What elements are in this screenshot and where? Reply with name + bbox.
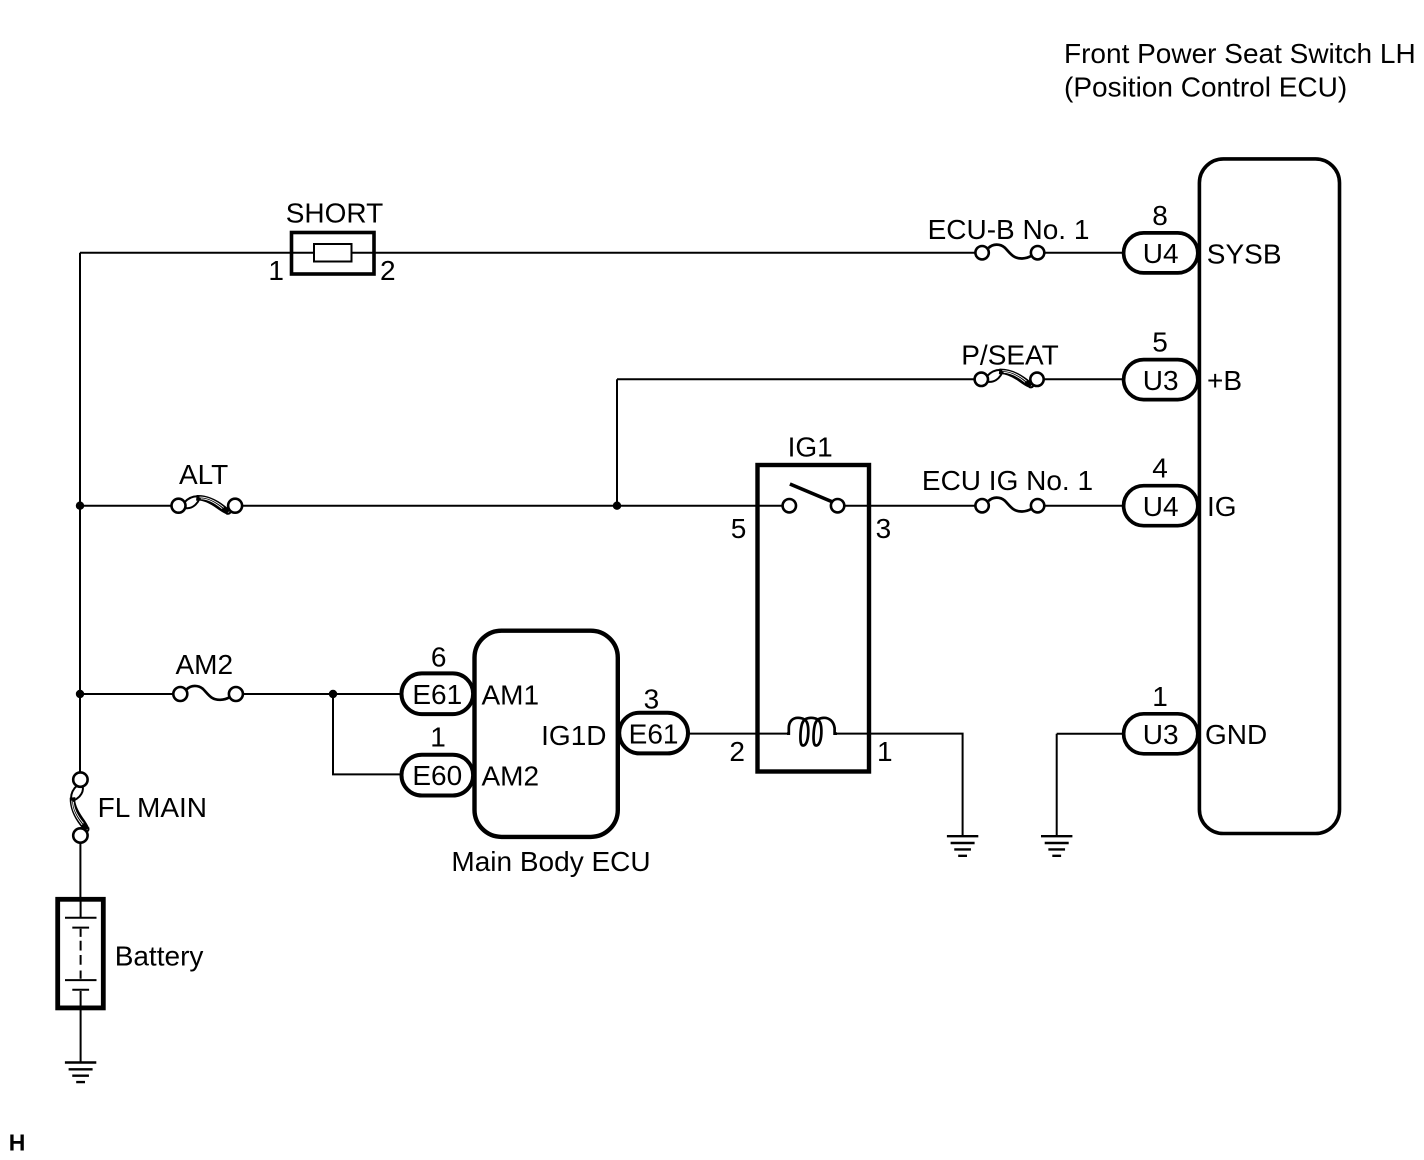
junction dot: left bus at AM2 row	[76, 690, 84, 698]
svg-text:IG: IG	[1207, 491, 1237, 522]
relay IG1 box	[758, 465, 870, 772]
svg-text:3: 3	[876, 513, 892, 544]
svg-text:5: 5	[1152, 327, 1168, 358]
svg-text:4: 4	[1152, 453, 1168, 484]
wire: GND row from ground stem corner to terminal U3	[1057, 734, 1124, 836]
svg-text:U3: U3	[1143, 719, 1179, 750]
relay IG1 switch blade	[790, 484, 832, 502]
terminal U3 (GND) oval	[1124, 714, 1198, 754]
terminal U4 (SYSB) oval	[1124, 233, 1198, 273]
connector E61 (IG1D) oval	[619, 713, 688, 754]
fusible link ALT terminals	[172, 499, 186, 513]
svg-text:(Position Control ECU): (Position Control ECU)	[1064, 72, 1347, 103]
svg-text:IG1: IG1	[788, 432, 833, 463]
battery plate short top	[72, 927, 89, 929]
fusible link ALT element	[184, 495, 230, 513]
svg-text:1: 1	[1152, 681, 1168, 712]
svg-text:2: 2	[729, 736, 745, 767]
fusible link FL MAIN element (vertical)	[70, 785, 88, 831]
wire: IG/ALT row from ALT to IG1 relay left edge and to contact	[242, 505, 783, 507]
ground: battery ground	[65, 1063, 96, 1083]
wire: SYSB row from ECU-B fuse to terminal U4	[1044, 252, 1123, 254]
wire: SYSB row horizontal from left vertical to SHORT fuse	[80, 252, 314, 254]
fuse AM2 element	[187, 686, 230, 700]
wire: IG row from relay right contact through box edge to ECU IG fuse	[844, 505, 975, 507]
svg-text:Battery: Battery	[115, 940, 204, 971]
wire: SYSB row from SHORT fuse to ECU-B fuse	[352, 252, 976, 254]
wire: battery negative to ground	[80, 991, 82, 1063]
svg-text:ECU IG No. 1: ECU IG No. 1	[922, 465, 1093, 496]
wire: left bus vertical at x=80	[79, 253, 81, 773]
svg-text:U4: U4	[1143, 491, 1179, 522]
svg-text:ECU-B No. 1: ECU-B No. 1	[928, 214, 1090, 245]
ground: relay coil ground	[947, 836, 978, 856]
wire: IG/ALT row from left bus to ALT fusible link	[80, 505, 172, 507]
wire: +B row from P/SEAT fuse to terminal U3	[1044, 378, 1124, 380]
fuse AM2 terminals	[173, 687, 187, 701]
svg-text:IG1D: IG1D	[541, 720, 606, 751]
fusible link P/SEAT terminals	[975, 373, 988, 386]
battery plate long bottom	[65, 979, 97, 981]
svg-text:Front Power Seat Switch LH: Front Power Seat Switch LH	[1064, 38, 1416, 69]
wire: AM2 row from fuse to E61 connector	[243, 693, 402, 695]
fuse ECU-B No. 1 terminals	[975, 246, 988, 259]
svg-text:1: 1	[877, 736, 893, 767]
svg-text:U3: U3	[1143, 365, 1179, 396]
relay IG1 contact circles	[783, 499, 796, 512]
terminal U4 (IG) oval	[1124, 486, 1198, 526]
wire: coil row from E61 connector to IG1 relay coil	[688, 733, 787, 735]
wire: from FL MAIN to battery	[79, 843, 81, 897]
junction dot: IG row at x=617	[613, 502, 621, 510]
svg-text:FL MAIN: FL MAIN	[98, 792, 207, 823]
Main Body ECU box	[475, 631, 618, 837]
svg-text:P/SEAT: P/SEAT	[961, 340, 1059, 371]
svg-text:5: 5	[731, 513, 747, 544]
svg-text:AM2: AM2	[176, 649, 234, 680]
battery plate long top	[65, 917, 97, 919]
svg-text:2: 2	[380, 255, 396, 286]
junction dot: left bus at ALT row	[76, 502, 84, 510]
wire: +B row from corner x=617 to P/SEAT fuse	[617, 378, 975, 380]
battery box	[58, 899, 104, 1008]
svg-text:Main Body ECU: Main Body ECU	[451, 846, 650, 877]
svg-text:3: 3	[644, 684, 660, 715]
fuse SHORT outer box	[292, 233, 375, 275]
svg-text:SHORT: SHORT	[286, 197, 384, 228]
svg-text:6: 6	[431, 641, 447, 672]
junction dot: AM2 row at branch x=333	[329, 690, 337, 698]
svg-text:U4: U4	[1143, 238, 1179, 269]
svg-text:E60: E60	[412, 760, 462, 791]
svg-text:AM2: AM2	[482, 761, 540, 792]
wire: IG row from ECU IG fuse to terminal U4	[1044, 505, 1123, 507]
svg-text:E61: E61	[629, 719, 679, 750]
battery center dashed line	[80, 929, 82, 979]
terminal U3 (+B) oval	[1124, 360, 1198, 400]
battery internal wire top	[80, 897, 82, 918]
svg-text:1: 1	[268, 255, 284, 286]
svg-text:ALT: ALT	[179, 459, 228, 490]
svg-text:E61: E61	[412, 679, 462, 710]
svg-text:H: H	[9, 1130, 26, 1156]
svg-text:1: 1	[430, 721, 446, 752]
svg-text:8: 8	[1152, 200, 1168, 231]
relay IG1 coil	[787, 718, 837, 746]
wire: branch from AM2 row down and right to E60 connector	[333, 694, 402, 774]
ECU box: Front Power Seat Switch LH	[1199, 159, 1339, 834]
wire: AM2 row from left bus to AM2 fuse	[80, 693, 174, 695]
ground: ECU GND terminal ground	[1041, 836, 1072, 856]
connector E60 (AM2) oval	[402, 755, 474, 796]
battery plate short bottom	[72, 989, 89, 991]
wire: vertical from +B row down to IG row at x=617	[616, 379, 618, 505]
fuse ECU IG No. 1 terminals	[975, 499, 988, 512]
connector E61 (AM1) oval	[402, 673, 474, 714]
fusible link FL MAIN terminals	[73, 772, 87, 786]
svg-text:SYSB: SYSB	[1207, 238, 1282, 269]
wire: coil row from coil to corner, down to ground	[837, 734, 963, 837]
fuse ECU IG No. 1 element	[989, 498, 1032, 512]
svg-text:GND: GND	[1205, 719, 1267, 750]
fuse ECU-B No. 1 element	[989, 245, 1032, 259]
svg-text:AM1: AM1	[482, 679, 540, 710]
fusible link P/SEAT element	[987, 369, 1033, 387]
fuse SHORT inner element	[314, 244, 352, 262]
svg-text:+B: +B	[1207, 365, 1242, 396]
